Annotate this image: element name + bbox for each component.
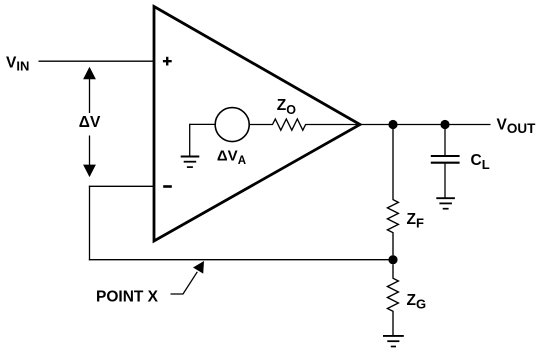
wire inverting input [89, 185, 154, 187]
delta-V measurement arrow [83, 67, 96, 177]
node dot at CL tap [440, 120, 449, 129]
ground (source) [181, 157, 200, 168]
voltage source delta-VA [215, 108, 249, 142]
svg-text:ΔV: ΔV [79, 114, 101, 131]
resistor ZF [387, 129, 398, 255]
node dot at ZF tap [388, 120, 397, 129]
resistor ZO [249, 119, 360, 130]
ground (CL) [436, 198, 455, 209]
ground (ZG) [383, 336, 404, 347]
wire VIN to + input [39, 60, 155, 62]
pin + (non-inverting input) [163, 57, 172, 66]
POINT X leader arrowhead [193, 261, 204, 274]
wire source to internal ground [190, 124, 216, 157]
feedback wire horizontal (bottom, point X net) [89, 259, 393, 261]
feedback wire vertical (left) [89, 186, 91, 261]
wire VOUT node to CL [444, 125, 446, 156]
pin - (inverting input) [163, 185, 172, 188]
output wire [360, 124, 491, 126]
capacitor CL [431, 156, 460, 198]
resistor ZG [387, 264, 398, 335]
node dot point X [388, 255, 397, 264]
op-amp U1 [154, 7, 360, 242]
POINT X leader line [171, 272, 198, 294]
svg-text:POINT X: POINT X [96, 289, 159, 306]
